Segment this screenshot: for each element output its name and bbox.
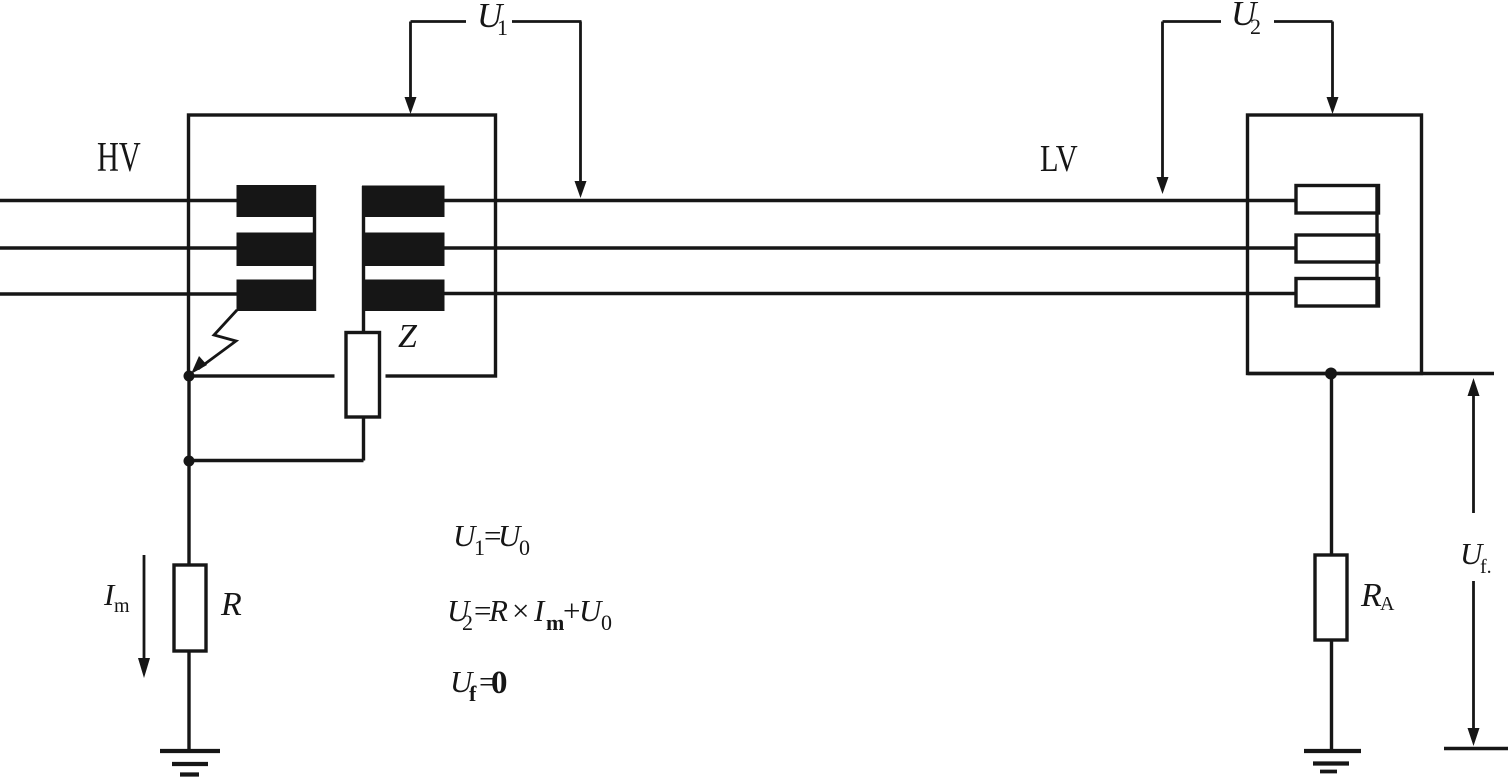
wire from Z bottom to node N2 (horizontal run) bbox=[189, 416, 364, 461]
ground symbol (right, below RA) bbox=[1304, 751, 1361, 772]
wire phase B (line between T1 and T2) bbox=[444, 246, 1297, 249]
wire phase A (HV side, left of transformer T1) bbox=[0, 199, 237, 202]
svg-text:m: m bbox=[114, 595, 130, 617]
svg-text:Z: Z bbox=[398, 318, 418, 355]
winding T1 phase A (secondary column top) bbox=[362, 186, 445, 218]
svg-text:0: 0 bbox=[519, 535, 530, 560]
current arrow Im bbox=[138, 555, 150, 678]
impedance Z body bbox=[335, 333, 386, 418]
svg-text:I: I bbox=[533, 593, 546, 628]
svg-text:0: 0 bbox=[491, 665, 508, 701]
label U2 bbox=[1231, 0, 1261, 39]
node N3 (T2 neutral junction) bbox=[1325, 368, 1337, 380]
node N2 (junction of neutral wire and Z return) bbox=[184, 456, 195, 467]
svg-text:A: A bbox=[1380, 593, 1395, 615]
node N1 (T1 bottom-left corner junction) bbox=[184, 371, 195, 382]
wire phase A (line between T1 and T2) bbox=[444, 199, 1297, 202]
svg-text:×: × bbox=[510, 593, 531, 628]
svg-text:f: f bbox=[469, 681, 477, 706]
measurement arrow Uf (double headed, right side) bbox=[1468, 378, 1480, 746]
fault zigzag arrow from T1 winding C to node N1 bbox=[191, 310, 237, 374]
label U1 bbox=[477, 0, 508, 40]
wire phase C (HV side, left of transformer T1) bbox=[0, 292, 237, 295]
svg-text:R: R bbox=[220, 586, 242, 623]
label Im bbox=[103, 577, 130, 617]
svg-text:HV: HV bbox=[97, 133, 141, 180]
wire connecting right edges of T2 windings bbox=[1375, 186, 1378, 305]
arrowhead of U2 right arm pointing at T2 box top bbox=[1327, 97, 1339, 114]
wire from node N3 down through RA to ground bbox=[1330, 374, 1333, 752]
label Z bbox=[398, 318, 418, 355]
winding T1 phase B (HV primary, left column middle) bbox=[237, 233, 317, 267]
equation U2 = R x Im + U0 bbox=[447, 593, 612, 635]
bracket for U1 measurement bbox=[411, 22, 582, 185]
arrowhead of U2 left arm pointing at phase A wire bbox=[1157, 177, 1169, 194]
svg-text:2: 2 bbox=[1250, 14, 1261, 39]
wire phase C (line between T1 and T2) bbox=[444, 292, 1297, 295]
svg-text:R: R bbox=[488, 593, 508, 628]
equation U1 = U0 bbox=[453, 518, 530, 560]
equation Uf = 0 bbox=[450, 664, 508, 706]
reference line at bottom of Uf arrow bbox=[1444, 747, 1508, 750]
winding T1 phase C (secondary column bottom) bbox=[362, 280, 445, 312]
wire phase B (HV side, left of transformer T1) bbox=[0, 246, 237, 249]
transformer T2 enclosure (LV side box) bbox=[1248, 115, 1422, 374]
wire T2 bottom rail extending right (fault reference) bbox=[1248, 372, 1495, 375]
winding T1 phase A (HV primary, left column top) bbox=[237, 185, 317, 217]
label LV bbox=[1040, 138, 1078, 180]
svg-text:1: 1 bbox=[497, 15, 508, 40]
bracket for U2 measurement bbox=[1163, 22, 1333, 181]
resistor R body bbox=[174, 565, 206, 651]
winding T2 phase C (LV, bottom) bbox=[1296, 279, 1379, 307]
label R bbox=[220, 586, 242, 623]
winding T1 phase B (secondary column middle) bbox=[362, 233, 445, 267]
svg-text:0: 0 bbox=[601, 610, 612, 635]
svg-text:R: R bbox=[1360, 577, 1382, 614]
winding T2 phase B (LV, middle) bbox=[1296, 235, 1379, 262]
wire neutral: node N1 down to resistor R and ground bbox=[187, 376, 190, 751]
resistor RA body bbox=[1315, 555, 1347, 640]
arrowhead of U1 left arm pointing at T1 box top bbox=[405, 97, 417, 114]
svg-text:f.: f. bbox=[1480, 556, 1492, 578]
wire connecting left edges of T1 right-column windings down to Z bbox=[362, 186, 365, 334]
svg-text:LV: LV bbox=[1040, 138, 1078, 180]
winding T1 phase C (HV primary, left column bottom) bbox=[237, 280, 317, 312]
wire connecting right edges of T1 left-column windings bbox=[313, 185, 316, 311]
ground symbol (left, below R) bbox=[160, 751, 220, 775]
label HV bbox=[97, 133, 141, 180]
arrowhead of U1 right arm pointing at phase A wire bbox=[575, 181, 587, 198]
label Uf (arrow label) bbox=[1460, 536, 1492, 578]
transformer T1 enclosure (HV side box) bbox=[189, 115, 496, 376]
label RA bbox=[1360, 577, 1395, 615]
winding T2 phase A (LV, top) bbox=[1296, 186, 1379, 214]
